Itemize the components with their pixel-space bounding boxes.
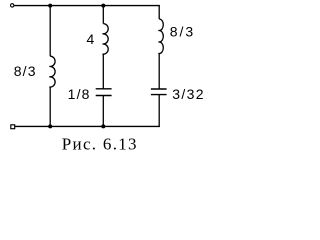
- svg-text:8/3: 8/3: [14, 63, 37, 79]
- svg-text:Рис. 6.13: Рис. 6.13: [62, 135, 138, 154]
- svg-text:3/32: 3/32: [172, 86, 205, 102]
- svg-text:4: 4: [87, 31, 95, 47]
- svg-text:8/3: 8/3: [170, 24, 195, 40]
- svg-text:1/8: 1/8: [68, 86, 91, 102]
